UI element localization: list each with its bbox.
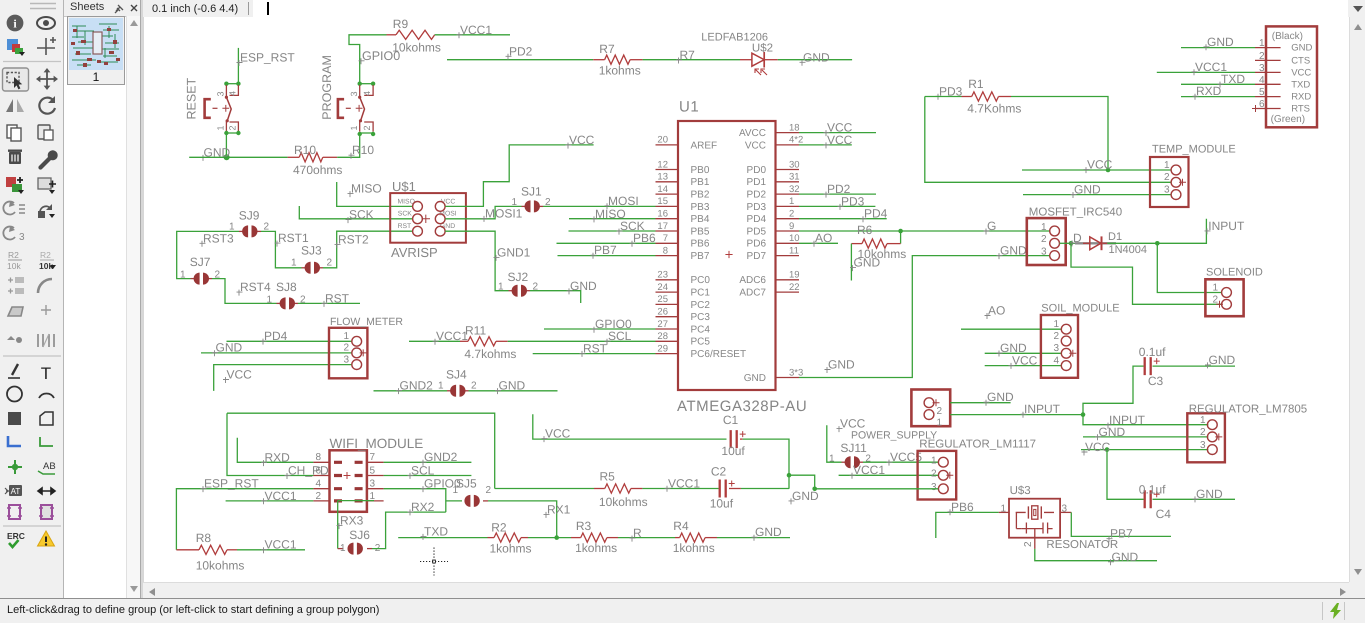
- jumper SJ1: [522, 205, 526, 207]
- svg-text:G: G: [987, 219, 996, 233]
- svg-text:5: 5: [1259, 87, 1265, 98]
- wire GND to LM7805 pin2: [1083, 436, 1208, 438]
- svg-text:1: 1: [267, 294, 273, 305]
- svg-text:25: 25: [657, 294, 668, 305]
- switch S2 PROGRAM: [360, 83, 373, 85]
- svg-text:18: 18: [789, 122, 800, 133]
- svg-text:4: 4: [315, 479, 321, 490]
- svg-text:1: 1: [216, 125, 226, 130]
- icon plus small: [41, 305, 51, 315]
- label VCC (AVRISP out): [566, 143, 572, 149]
- svg-text:7: 7: [370, 452, 376, 463]
- svg-text:PD3: PD3: [747, 202, 767, 213]
- wire R7 to LED: [643, 59, 740, 61]
- label GND1: [494, 255, 500, 261]
- svg-text:U1: U1: [679, 99, 699, 116]
- wire GND rail: [189, 156, 287, 158]
- icon move: [38, 70, 56, 88]
- wire SCL out of WIFI: [384, 475, 472, 477]
- wire VCC to C1: [533, 414, 727, 439]
- label R10 (second): [349, 153, 355, 159]
- resistor R4 1kohms: [675, 537, 680, 539]
- svg-text:1: 1: [937, 418, 943, 429]
- svg-text:19: 19: [789, 270, 800, 281]
- icon replace: [40, 206, 51, 212]
- wire resonator pin3 to PB7: [1071, 512, 1171, 536]
- svg-text:ESP_RST: ESP_RST: [240, 51, 295, 65]
- wire AVCC to VCC: [799, 132, 876, 134]
- wire PD5 / G to MOSFET pin1: [799, 230, 1050, 232]
- wire MISO into AVRISP: [337, 182, 413, 206]
- node junction GND dot1: [787, 473, 792, 478]
- svg-text:2: 2: [327, 258, 333, 269]
- label TXD: [421, 534, 427, 540]
- label VCC1 (wifi): [261, 498, 267, 504]
- wire PD4 to FLOW pin1: [227, 340, 352, 342]
- sheets panel title: [70, 1, 104, 13]
- svg-text:28: 28: [657, 331, 668, 342]
- node GND junction: [224, 154, 230, 160]
- svg-text:10kohms: 10kohms: [599, 495, 648, 509]
- svg-text:22: 22: [789, 282, 800, 293]
- svg-text:R10: R10: [352, 143, 374, 157]
- svg-text:GND: GND: [792, 489, 819, 503]
- icon add part: [6, 177, 16, 187]
- wire INPUT net: [950, 414, 1083, 416]
- icon net: [40, 437, 53, 446]
- icon split: [38, 334, 54, 347]
- label RX3: [337, 523, 343, 529]
- svg-text:2: 2: [1054, 331, 1060, 342]
- svg-text:4*2: 4*2: [789, 135, 803, 146]
- wire PD4 stub: [799, 218, 887, 220]
- svg-text:30: 30: [789, 159, 800, 170]
- wire resonator pin2 to GND: [1035, 549, 1157, 561]
- svg-text:SCK: SCK: [398, 211, 412, 218]
- wire ESP_RST vertical into RESET switch: [237, 48, 239, 84]
- wire GND to SOIL pin3: [985, 352, 1061, 354]
- label MOSI1: [482, 216, 488, 222]
- wire to SOLENOID pin1: [1157, 243, 1221, 292]
- wire R8 to VCC1: [237, 549, 305, 551]
- icon circle: [7, 387, 22, 402]
- wire SJ3 to RST2 riser into AVRISP: [323, 231, 412, 268]
- svg-text:VCC: VCC: [227, 368, 253, 382]
- label GND (LED): [800, 60, 806, 66]
- svg-text:27: 27: [657, 319, 668, 330]
- svg-text:R2: R2: [8, 250, 19, 260]
- icon attribute: [9, 485, 22, 496]
- wire VCC pin: [799, 144, 852, 146]
- svg-text:REGULATOR_LM1117: REGULATOR_LM1117: [919, 438, 1036, 450]
- label GND (C3): [1205, 362, 1211, 368]
- icon dimension: [38, 488, 55, 494]
- wire GND2 out of WIFI: [384, 461, 472, 463]
- label D: [1070, 240, 1076, 246]
- svg-text:PC4: PC4: [691, 324, 711, 335]
- label GPIO0: [359, 58, 365, 64]
- wire C3 to GND: [1153, 365, 1236, 367]
- svg-text:4: 4: [228, 91, 238, 96]
- connector POWER_SUPPLY: [911, 390, 950, 427]
- svg-text:10uf: 10uf: [710, 496, 734, 510]
- label PB7: [591, 253, 597, 259]
- icon mark origin: [37, 37, 56, 55]
- svg-text:10kohms: 10kohms: [196, 559, 245, 573]
- svg-text:PB7: PB7: [594, 243, 617, 257]
- mouse crosshair cursor: [420, 548, 448, 576]
- svg-text:VCC: VCC: [545, 427, 571, 441]
- label GND (resonator): [1108, 559, 1114, 565]
- svg-text:RXD: RXD: [1196, 84, 1222, 98]
- label GND (SJ2): [567, 288, 573, 294]
- svg-text:3: 3: [1200, 440, 1206, 451]
- svg-text:1: 1: [512, 197, 518, 208]
- svg-text:(Black): (Black): [1272, 31, 1303, 42]
- node junction G/R6: [898, 229, 903, 234]
- svg-text:INPUT: INPUT: [1024, 402, 1061, 416]
- svg-text:8: 8: [315, 452, 321, 463]
- IC U1 ATMEGA328P-AU body: [678, 121, 776, 390]
- svg-text:16: 16: [657, 209, 668, 220]
- wire RST3 net left rail: [177, 231, 239, 278]
- pin icon: [114, 3, 126, 14]
- wire SJ5 tee: [446, 500, 462, 502]
- svg-text:VCC: VCC: [569, 133, 595, 147]
- svg-text:5: 5: [370, 465, 376, 476]
- svg-text:PB3: PB3: [691, 202, 710, 213]
- svg-text:1: 1: [453, 485, 459, 496]
- label PB6 (resonator): [948, 509, 954, 515]
- svg-text:2: 2: [1041, 234, 1047, 245]
- svg-text:RXD: RXD: [1291, 92, 1311, 103]
- svg-text:3: 3: [19, 232, 25, 243]
- svg-text:SCK: SCK: [349, 208, 374, 222]
- svg-text:6: 6: [1259, 99, 1265, 110]
- svg-text:GND: GND: [1000, 244, 1027, 258]
- svg-text:3: 3: [1259, 63, 1265, 74]
- icon eye: [37, 17, 55, 29]
- wire ESP_RST into WIFI and down to R8: [176, 489, 313, 550]
- svg-text:PB0: PB0: [691, 165, 710, 176]
- label GND (U1 pin): [825, 367, 831, 373]
- wire SJ5 to RX1 riser: [488, 501, 557, 538]
- svg-text:SJ2: SJ2: [508, 270, 529, 284]
- wire R2 to junction to R3: [528, 537, 571, 539]
- label PB6: [630, 241, 636, 247]
- resistor R6 10kohms branch: [900, 231, 902, 244]
- svg-text:FLOW_METER: FLOW_METER: [330, 316, 403, 328]
- icon group (active): [3, 68, 29, 91]
- svg-text:470ohms: 470ohms: [293, 163, 342, 177]
- svg-text:1: 1: [291, 258, 297, 269]
- svg-text:RESONATOR: RESONATOR: [1046, 539, 1118, 551]
- label GND (R6): [850, 265, 856, 271]
- svg-text:TXD: TXD: [1291, 79, 1310, 90]
- U1 right pins with numbers: [776, 132, 800, 134]
- svg-text:GND: GND: [828, 358, 855, 372]
- svg-text:1: 1: [344, 331, 350, 342]
- jumper SJ8: [277, 302, 281, 304]
- svg-text:31: 31: [789, 172, 800, 183]
- svg-text:TEMP_MODULE: TEMP_MODULE: [1152, 143, 1236, 155]
- svg-text:GND: GND: [1291, 43, 1312, 54]
- svg-text:1kohms: 1kohms: [673, 541, 715, 555]
- svg-text:GND: GND: [987, 390, 1014, 404]
- label RXD (wifi): [261, 460, 267, 466]
- jumper SJ5: [464, 495, 470, 507]
- wire CH_PD from top rail: [227, 413, 313, 475]
- svg-text:SJ4: SJ4: [446, 367, 467, 381]
- svg-text:PD4: PD4: [264, 329, 288, 343]
- icon wire/line: [8, 377, 20, 379]
- wire GPIO0 net from R9 down to PROGRAM switch: [349, 35, 387, 84]
- label MISO: [592, 216, 598, 222]
- wire INPUT to C3 jog: [1083, 366, 1144, 415]
- svg-text:2: 2: [344, 343, 350, 354]
- label GND (power): [984, 400, 990, 406]
- label PD3 (R1): [936, 94, 942, 100]
- label GND (MOSFET pin3): [997, 253, 1003, 259]
- svg-text:SJ9: SJ9: [239, 208, 260, 222]
- wire R1 to VCC junction: [1011, 97, 1108, 171]
- label CH_PD: [285, 473, 291, 479]
- svg-text:PD4: PD4: [747, 214, 767, 225]
- svg-text:2: 2: [264, 221, 270, 232]
- icon arc: [39, 394, 54, 399]
- svg-text:R3: R3: [576, 519, 592, 533]
- bottom scrollbar: [143, 582, 1349, 599]
- svg-text:14: 14: [657, 184, 668, 195]
- jumper SJ3: [302, 267, 306, 269]
- svg-text:3: 3: [349, 91, 359, 96]
- svg-text:26: 26: [657, 307, 668, 318]
- svg-text:RST3: RST3: [203, 231, 234, 245]
- svg-text:R2: R2: [40, 250, 51, 260]
- label GND (regs): [789, 498, 795, 504]
- svg-text:3: 3: [344, 354, 350, 365]
- svg-text:VCC1: VCC1: [668, 476, 700, 490]
- wire PD6 / AO stub: [799, 242, 838, 244]
- icon technology: [3, 227, 15, 240]
- svg-text:2: 2: [315, 491, 321, 502]
- wire SCL net with R11: [409, 340, 460, 342]
- svg-text:1: 1: [340, 543, 346, 554]
- svg-text:PD1: PD1: [747, 177, 767, 188]
- icon display layers: [7, 39, 18, 50]
- label RST2: [335, 242, 341, 248]
- left toolbar: [0, 0, 64, 600]
- svg-text:PC0: PC0: [691, 275, 711, 286]
- svg-text:12: 12: [657, 159, 668, 170]
- wire GPIO0 out of WIFI to SJ5/RX2 riser: [384, 489, 446, 512]
- capacitor C2 10uf: [720, 480, 726, 498]
- svg-text:29: 29: [657, 343, 668, 354]
- node junction after D1: [1155, 241, 1160, 246]
- svg-text:GND2: GND2: [424, 450, 458, 464]
- svg-text:GND: GND: [854, 256, 881, 270]
- svg-text:GND: GND: [1099, 425, 1126, 439]
- label GND (R4): [752, 535, 758, 541]
- svg-text:GND: GND: [1074, 183, 1101, 197]
- svg-text:3: 3: [1164, 184, 1170, 195]
- svg-text:SJ1: SJ1: [521, 184, 542, 198]
- svg-text:R4: R4: [673, 519, 689, 533]
- icon add next: [38, 178, 51, 189]
- svg-text:SCL: SCL: [608, 329, 632, 343]
- wire R9 to VCC1: [435, 34, 510, 36]
- label GPIO0 (PC4): [592, 327, 598, 333]
- wire VCC to C4: [1107, 450, 1144, 500]
- wire PB6 to resonator pin1: [936, 512, 999, 538]
- svg-text:1kohms: 1kohms: [599, 64, 641, 78]
- svg-text:VCC: VCC: [827, 133, 853, 147]
- wire VCC to FLOW pin3: [214, 365, 352, 391]
- icon info: [7, 15, 24, 32]
- connector SOLENOID: [1205, 279, 1243, 316]
- svg-text:PD2: PD2: [747, 190, 767, 201]
- svg-text:3: 3: [1054, 343, 1060, 354]
- svg-text:R10: R10: [294, 143, 316, 157]
- resistor R10 470ohms: [288, 156, 300, 158]
- svg-text:1: 1: [1200, 415, 1206, 426]
- label ESP_RST (wifi): [201, 486, 207, 492]
- svg-text:SOIL_MODULE: SOIL_MODULE: [1041, 303, 1119, 315]
- svg-text:AO: AO: [815, 231, 832, 245]
- wire RXD into WIFI: [237, 438, 313, 463]
- svg-text:ATMEGA328P-AU: ATMEGA328P-AU: [677, 398, 807, 415]
- svg-text:RST: RST: [583, 341, 608, 355]
- icon invoke: [3, 202, 15, 215]
- svg-text:1: 1: [1054, 319, 1060, 330]
- svg-text:1: 1: [931, 455, 937, 466]
- svg-text:GND: GND: [570, 279, 597, 293]
- svg-text:2: 2: [471, 381, 477, 392]
- svg-text:RXD: RXD: [265, 451, 291, 465]
- wire R4 to GND: [717, 537, 790, 539]
- node junction RX1/TXD: [554, 535, 559, 540]
- svg-text:VCC: VCC: [745, 140, 766, 151]
- wire SJ9 to RST1 corner to SJ3: [261, 231, 302, 267]
- svg-text:RX2: RX2: [411, 500, 435, 514]
- svg-text:RX1: RX1: [547, 502, 571, 516]
- label PD2: [506, 54, 512, 60]
- icon smash: [8, 278, 13, 294]
- svg-text:9: 9: [789, 221, 794, 232]
- wire VCC to SOIL pin4: [985, 365, 1061, 367]
- svg-text:1kohms: 1kohms: [575, 541, 617, 555]
- wire VCC1 to connector pin3: [1157, 71, 1255, 73]
- node junction INPUT: [1081, 412, 1086, 417]
- svg-text:MISO: MISO: [351, 182, 382, 196]
- label GND (SJ4): [495, 388, 501, 394]
- svg-text:ADC7: ADC7: [739, 288, 766, 299]
- svg-text:23: 23: [657, 270, 668, 281]
- connector J1 serial (Black/Green): [1266, 26, 1317, 127]
- svg-text:VCC: VCC: [1012, 353, 1038, 367]
- label R7 (second): [676, 58, 682, 64]
- resistor R1 4.7Kohms: [925, 96, 962, 98]
- svg-text:4.7kohms: 4.7kohms: [464, 347, 516, 361]
- wire VCC1 to LM1117 pin2: [839, 474, 939, 476]
- svg-text:4: 4: [1054, 355, 1060, 366]
- wire C1 to GND junction: [743, 439, 789, 489]
- svg-text:2: 2: [1259, 51, 1265, 62]
- label GND (7805): [1095, 434, 1101, 440]
- svg-text:TXD: TXD: [1221, 72, 1245, 86]
- svg-text:PD5: PD5: [747, 226, 767, 237]
- label RX2: [408, 509, 414, 515]
- svg-text:VCC1: VCC1: [265, 489, 297, 503]
- svg-text:GND: GND: [1112, 550, 1139, 564]
- connector U$1 AVRISP: [390, 193, 466, 243]
- svg-text:VCC1: VCC1: [265, 538, 297, 552]
- svg-text:2: 2: [789, 209, 794, 220]
- svg-text:R1: R1: [968, 77, 984, 91]
- node ESP_RST label: [237, 60, 243, 66]
- right scrollbar: [1349, 17, 1365, 582]
- label GND (C4): [1193, 496, 1199, 502]
- svg-text:10kohms: 10kohms: [392, 40, 441, 54]
- wire TXD to connector pin4: [1181, 83, 1255, 85]
- jumper SJ4: [447, 390, 451, 392]
- regulator REGULATOR_LM1117: [918, 451, 957, 500]
- wire RXD to connector pin5: [1181, 96, 1255, 98]
- icon junction: [8, 460, 22, 474]
- svg-text:AREF: AREF: [691, 140, 718, 151]
- svg-text:SJ8: SJ8: [276, 280, 297, 294]
- wire top long rail to R5 row: [227, 413, 495, 488]
- label GND: [201, 155, 207, 161]
- icon polygon-ish: [8, 307, 23, 316]
- label AO (soil): [985, 313, 991, 319]
- svg-text:1: 1: [789, 196, 794, 207]
- wire AVRISP VCC out to VCC label: [445, 145, 593, 207]
- label SCK (AVRISP): [346, 217, 352, 223]
- svg-text:VCC: VCC: [840, 417, 866, 431]
- icon mirror: [6, 99, 13, 112]
- wire SCK into AVRISP: [299, 206, 412, 219]
- svg-text:PC3: PC3: [691, 312, 711, 323]
- svg-text:1: 1: [349, 125, 359, 130]
- U1 left pins with numbers: [656, 144, 679, 146]
- svg-text:2: 2: [1200, 427, 1206, 438]
- svg-text:0.1uf: 0.1uf: [1139, 345, 1166, 359]
- svg-text:GND: GND: [216, 341, 243, 355]
- wire MOSI SJ1 to U1 PB3: [543, 205, 656, 207]
- sheet 1 item: [67, 16, 125, 85]
- svg-text:1: 1: [229, 221, 235, 232]
- labels RST4 SJ8: [237, 290, 243, 296]
- label VCC1 (top): [457, 32, 463, 38]
- svg-text:1: 1: [180, 270, 186, 281]
- wire RESET to GND rail: [225, 133, 227, 157]
- label G: [984, 229, 990, 235]
- node junction GND dot2: [812, 487, 817, 492]
- svg-text:2: 2: [228, 125, 238, 130]
- wire GND to TEMP pin3: [1023, 194, 1171, 196]
- svg-text:SJ6: SJ6: [349, 528, 370, 542]
- svg-text:4: 4: [1259, 75, 1265, 86]
- svg-text:1kohms: 1kohms: [490, 541, 532, 555]
- svg-text:C3: C3: [1148, 374, 1164, 388]
- wire PD3 loop down to TEMP DQ: [925, 97, 1171, 183]
- svg-text:17: 17: [657, 221, 668, 232]
- green lightning icon: [1328, 603, 1344, 620]
- connector WIFI_MODULE: [330, 450, 367, 512]
- svg-text:R7: R7: [680, 48, 696, 62]
- wire SJ7 to SJ8: [212, 279, 277, 304]
